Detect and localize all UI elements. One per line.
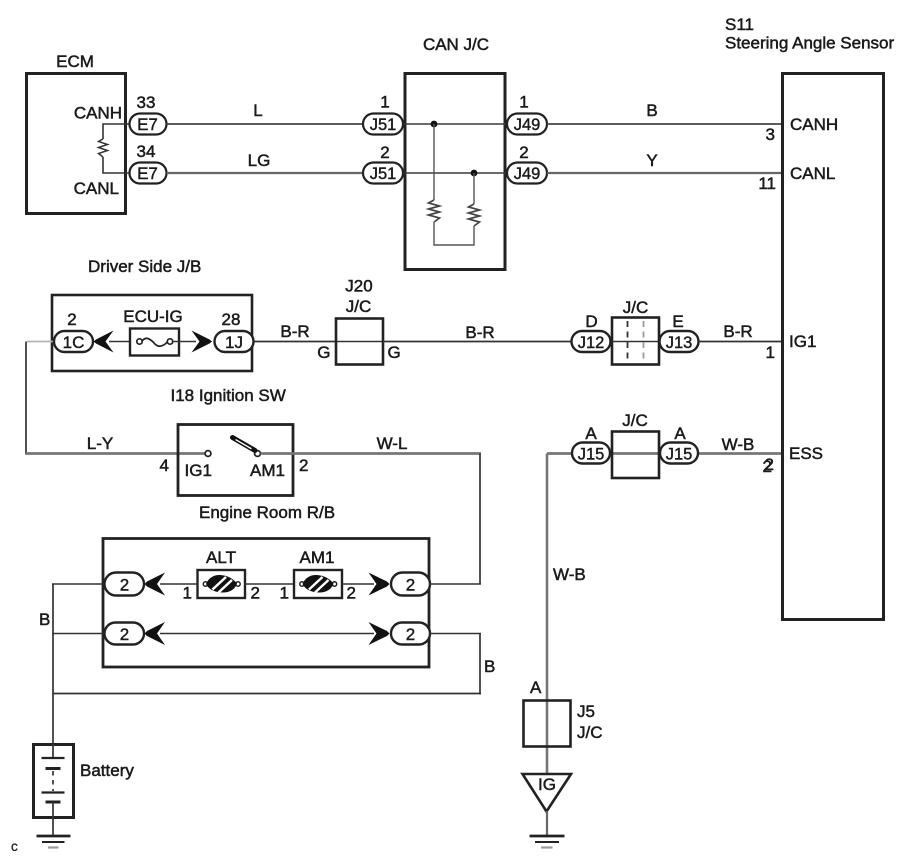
wire bottom horizontal xyxy=(53,693,481,695)
svg-text:B: B xyxy=(646,101,657,120)
svg-text:Battery: Battery xyxy=(80,761,134,780)
svg-text:S11: S11 xyxy=(725,15,754,34)
fusible link ALT symbol xyxy=(203,582,207,586)
svg-text:Engine Room R/B: Engine Room R/B xyxy=(199,503,335,522)
svg-text:2: 2 xyxy=(406,625,415,644)
svg-text:2: 2 xyxy=(120,576,129,595)
svg-text:W-L: W-L xyxy=(377,434,408,453)
wire CANH through CAN J/C xyxy=(403,123,507,125)
wire B-R (J13 to S11 IG1) xyxy=(699,341,782,343)
wire vertical from 1C down to L-Y row xyxy=(25,342,27,455)
fuse ECU-IG box xyxy=(130,329,179,356)
connector J15 left xyxy=(572,443,610,464)
wire B-R (1J to J20) xyxy=(254,341,337,343)
svg-text:1: 1 xyxy=(519,93,528,112)
wire 1C arrow to fuse xyxy=(109,341,137,343)
J/B arrow left (1C) xyxy=(94,331,114,353)
connector E7 pin 33 xyxy=(130,114,167,135)
ECM box xyxy=(27,74,126,214)
svg-text:1J: 1J xyxy=(225,333,243,352)
ground (battery) xyxy=(37,835,71,838)
svg-text:2: 2 xyxy=(120,625,129,644)
svg-text:2: 2 xyxy=(67,310,76,329)
connector 1C xyxy=(54,331,93,352)
junction J5 J/C box xyxy=(524,701,571,747)
junction J20 J/C box xyxy=(336,319,383,365)
wire AM1 to arrow xyxy=(342,583,374,585)
wire Y (J49-2 to S11) xyxy=(547,172,781,174)
svg-text:3: 3 xyxy=(766,125,775,144)
svg-text:2: 2 xyxy=(519,143,528,162)
svg-text:J/C: J/C xyxy=(622,411,648,430)
wire W-L xyxy=(261,452,482,455)
svg-text:1: 1 xyxy=(183,584,192,603)
resistor ECM terminating xyxy=(99,139,108,157)
wire through J/C xyxy=(612,341,659,343)
wire triangle to ground xyxy=(546,811,548,836)
junction dot 2 xyxy=(471,170,478,177)
svg-text:2: 2 xyxy=(763,457,772,476)
svg-text:34: 34 xyxy=(137,142,156,161)
wire stub left of 1C xyxy=(27,341,56,343)
svg-text:J20: J20 xyxy=(345,277,372,296)
battery plates xyxy=(42,757,65,759)
svg-text:ECU-IG: ECU-IG xyxy=(123,307,183,326)
svg-text:1: 1 xyxy=(280,584,289,603)
resistor terminating 2 xyxy=(469,204,480,226)
svg-text:J51: J51 xyxy=(370,116,397,134)
ground (IG) xyxy=(530,835,565,838)
svg-text:2: 2 xyxy=(380,143,389,162)
connector J12 xyxy=(572,331,611,352)
S11 Steering Angle Sensor box xyxy=(783,74,884,620)
svg-text:IG1: IG1 xyxy=(789,332,816,351)
svg-text:J49: J49 xyxy=(514,165,541,183)
battery box xyxy=(34,745,74,818)
svg-text:Driver Side J/B: Driver Side J/B xyxy=(88,257,201,276)
svg-text:IG1: IG1 xyxy=(185,461,212,480)
svg-text:E7: E7 xyxy=(137,164,158,183)
wire B-R (J20 to J12) xyxy=(383,341,572,343)
svg-text:G: G xyxy=(388,343,401,362)
dashed line 1 in J/C xyxy=(627,321,629,361)
svg-text:33: 33 xyxy=(137,93,156,112)
wire vertical to battery xyxy=(52,694,54,759)
svg-text:J51: J51 xyxy=(370,165,397,183)
R/B arrow left (row1) xyxy=(145,573,166,596)
Engine Room R/B box xyxy=(103,539,429,668)
svg-text:AM1: AM1 xyxy=(300,548,335,567)
svg-text:Y: Y xyxy=(646,151,657,170)
svg-text:AM1: AM1 xyxy=(250,461,285,480)
svg-text:L: L xyxy=(253,101,262,120)
svg-text:J13: J13 xyxy=(666,334,693,352)
svg-text:B-R: B-R xyxy=(465,323,494,342)
svg-text:W-B: W-B xyxy=(553,565,586,584)
junction J/C (J12/J13) box xyxy=(612,318,659,365)
wire vertical right (B) xyxy=(479,634,481,695)
wire B (J49-1 to S11) xyxy=(547,123,781,125)
fusible link AM1 symbol xyxy=(300,582,304,586)
fuse ECU-IG symbol xyxy=(137,339,142,344)
svg-text:B: B xyxy=(39,610,50,629)
svg-text:2: 2 xyxy=(347,584,356,603)
connector J15 right xyxy=(660,443,698,464)
svg-text:J15: J15 xyxy=(578,446,605,464)
svg-text:Steering Angle Sensor: Steering Angle Sensor xyxy=(725,34,895,53)
fusible link ALT box xyxy=(198,570,246,598)
svg-text:J12: J12 xyxy=(578,334,605,352)
svg-text:2: 2 xyxy=(406,576,415,595)
wire row1 left stub xyxy=(52,583,106,585)
svg-text:ALT: ALT xyxy=(206,548,236,567)
svg-text:28: 28 xyxy=(222,310,241,329)
switch lever xyxy=(233,438,256,451)
wire L-Y xyxy=(26,452,206,455)
svg-text:I18 Ignition SW: I18 Ignition SW xyxy=(171,386,286,405)
connector 2 (row1 left) xyxy=(105,573,145,596)
junction J/C (J15) box xyxy=(612,432,659,479)
terminal AM1 xyxy=(255,451,261,457)
wire termination branch 1 xyxy=(434,124,474,245)
svg-text:E7: E7 xyxy=(137,115,158,134)
svg-text:c: c xyxy=(11,839,18,854)
svg-text:ECM: ECM xyxy=(56,52,94,71)
wire row2 right xyxy=(429,633,481,635)
svg-text:B: B xyxy=(484,657,495,676)
J/B arrow right (1J) xyxy=(192,331,213,353)
svg-text:B-R: B-R xyxy=(280,322,309,341)
svg-text:4: 4 xyxy=(160,456,169,475)
connector 2 (row2 left) xyxy=(105,623,145,645)
wire ALT to AM1 xyxy=(245,583,302,585)
R/B arrow right (row2) xyxy=(369,622,390,645)
svg-text:E: E xyxy=(672,312,683,331)
svg-text:L-Y: L-Y xyxy=(87,434,113,453)
svg-text:A: A xyxy=(674,424,686,443)
wire vertical W-L down to R/B xyxy=(479,454,481,585)
wire ECM internal stubs xyxy=(103,124,129,173)
svg-text:W-B: W-B xyxy=(722,435,755,454)
wire W-B vertical xyxy=(546,454,549,774)
svg-text:LG: LG xyxy=(248,151,271,170)
svg-text:CANL: CANL xyxy=(74,179,119,198)
wire arrow to ALT xyxy=(160,583,206,585)
connector J13 xyxy=(660,331,699,352)
wire CANL through CAN J/C xyxy=(403,172,507,174)
wire fuse to arrow xyxy=(173,341,197,343)
wire row2 left stub xyxy=(52,633,106,635)
svg-text:D: D xyxy=(585,312,597,331)
dashed line 2 in J/C xyxy=(643,321,645,361)
connector J49 pin 1 xyxy=(507,114,547,135)
wire ESS row horizontal xyxy=(547,452,781,455)
svg-text:G: G xyxy=(317,343,330,362)
wire L (E7-33 to J51-1) xyxy=(167,123,364,125)
battery lead top xyxy=(52,744,54,758)
resistor terminating 1 xyxy=(429,200,440,222)
wire row1 right xyxy=(429,583,481,585)
svg-text:11: 11 xyxy=(758,174,776,193)
svg-text:J/C: J/C xyxy=(623,298,649,317)
svg-text:CANH: CANH xyxy=(74,104,122,123)
junction dot 1 xyxy=(431,121,438,128)
ignition switch I18 box xyxy=(178,425,293,496)
wire through J20 xyxy=(336,341,383,343)
svg-text:1C: 1C xyxy=(63,333,85,352)
connector 2 (row2 right) xyxy=(391,623,430,645)
svg-text:J/C: J/C xyxy=(346,297,372,316)
connector J49 pin 2 xyxy=(507,163,547,184)
R/B arrow right (row1) xyxy=(369,573,390,596)
svg-text:B-R: B-R xyxy=(723,322,752,341)
svg-text:1: 1 xyxy=(380,93,389,112)
svg-text:ESS: ESS xyxy=(789,444,823,463)
svg-text:CAN J/C: CAN J/C xyxy=(423,35,489,54)
connector J51 pin 1 xyxy=(363,114,403,135)
wire vertical left (B) xyxy=(52,584,54,695)
R/B arrow left (row2) xyxy=(145,622,166,645)
svg-text:IG: IG xyxy=(538,775,556,794)
svg-text:1: 1 xyxy=(766,343,775,362)
terminal IG1 xyxy=(205,451,211,457)
svg-text:2: 2 xyxy=(251,584,260,603)
ground triangle IG xyxy=(523,774,572,812)
svg-text:A: A xyxy=(585,424,597,443)
svg-text:J15: J15 xyxy=(666,446,693,464)
svg-text:CANH: CANH xyxy=(790,115,838,134)
CAN J/C box xyxy=(405,74,505,270)
svg-text:2: 2 xyxy=(299,456,308,475)
svg-text:J/C: J/C xyxy=(577,723,603,742)
connector J51 pin 2 xyxy=(363,163,403,184)
connector 1J xyxy=(215,331,254,352)
wire row2 middle xyxy=(160,633,374,635)
svg-text:A: A xyxy=(530,678,542,697)
fusible link AM1 box xyxy=(294,570,342,598)
svg-text:J5: J5 xyxy=(577,702,595,721)
connector 2 (row1 right) xyxy=(391,573,430,596)
svg-text:J49: J49 xyxy=(514,116,541,134)
connector E7 pin 34 xyxy=(130,163,167,184)
wire LG (E7-34 to J51-2) xyxy=(167,172,364,174)
svg-text:CANL: CANL xyxy=(790,164,835,183)
